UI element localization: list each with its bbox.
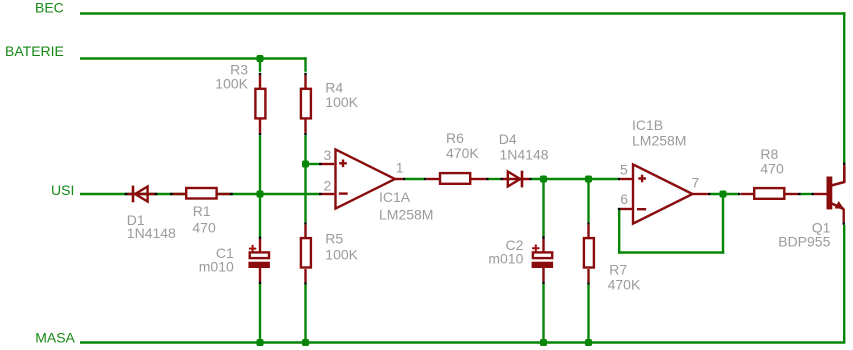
svg-text:MASA: MASA xyxy=(35,329,75,345)
wire col1 USI node to C1 xyxy=(259,194,261,237)
junction MASA/R7 xyxy=(585,339,592,346)
C1 value label xyxy=(199,259,234,275)
wire D4 to pin5 xyxy=(532,178,618,180)
R5 name label xyxy=(325,231,343,247)
svg-text:3: 3 xyxy=(324,147,332,163)
R4 name label xyxy=(325,80,343,96)
R6 name label xyxy=(446,130,464,146)
R1 value label xyxy=(192,220,216,236)
pin tick IC1B pin7 out xyxy=(708,193,711,195)
resistor R5 xyxy=(301,225,311,283)
R3 name label xyxy=(230,61,248,77)
pin tick IC1A pin2 xyxy=(319,193,322,195)
junction D4/R7 xyxy=(585,176,592,183)
junction MASA/R5 xyxy=(302,339,309,346)
pin tick R1 right xyxy=(230,193,233,195)
IC1A pin 3 label xyxy=(324,147,332,163)
svg-text:1N4148: 1N4148 xyxy=(127,225,176,241)
svg-text:IC1A: IC1A xyxy=(379,189,411,205)
capacitor C1 xyxy=(248,239,270,281)
wire col2 pin3 node to R5 xyxy=(304,164,306,222)
diode D4 xyxy=(503,171,529,188)
R4 value label xyxy=(325,94,358,110)
wire col3 C2 to MASA xyxy=(542,284,544,343)
Q1 name label xyxy=(812,220,831,236)
junction MASA/C1 xyxy=(257,339,264,346)
svg-text:BEC: BEC xyxy=(35,0,64,15)
svg-text:R6: R6 xyxy=(446,130,464,146)
svg-text:1N4148: 1N4148 xyxy=(500,147,549,163)
wire Q1 emitter to MASA xyxy=(843,225,845,343)
pin tick IC1B pin5 xyxy=(618,178,621,180)
IC1B pin 6 label xyxy=(620,191,628,207)
svg-text:100K: 100K xyxy=(325,246,358,262)
IC1A pin 1 label xyxy=(396,160,404,176)
IC1B value label xyxy=(632,132,686,148)
pin tick R6 right xyxy=(486,178,489,180)
wire col2 R5 to MASA xyxy=(304,285,306,343)
wire BEC horizontal xyxy=(80,12,845,14)
capacitor C2 xyxy=(532,239,554,281)
pin tick R4 bottom xyxy=(304,133,306,135)
pin tick D4 anode xyxy=(500,178,503,180)
svg-text:R5: R5 xyxy=(325,231,343,247)
diode D1 xyxy=(127,186,154,203)
R1 name label xyxy=(193,203,211,219)
wire col2 R4 to pin3 node xyxy=(304,135,306,164)
junction BATERIE/R3 xyxy=(257,55,264,62)
D1 name label xyxy=(127,212,145,228)
svg-text:6: 6 xyxy=(620,191,628,207)
junction MASA/C2 xyxy=(540,339,547,346)
svg-text:LM258M: LM258M xyxy=(379,207,433,223)
svg-text:470: 470 xyxy=(760,161,784,177)
wire feedback vertical to pin6 xyxy=(618,209,620,254)
svg-text:BATERIE: BATERIE xyxy=(5,43,64,59)
Q1 value label xyxy=(778,234,830,250)
junction IC1B out/feedback xyxy=(720,191,727,198)
IC1B pin 7 label xyxy=(692,175,700,191)
pin tick IC1A pin3 xyxy=(319,163,322,165)
pin tick C2 top xyxy=(542,236,544,239)
pin tick R7 bottom xyxy=(587,282,589,284)
svg-text:D4: D4 xyxy=(499,131,517,147)
wire USI horizontal xyxy=(80,193,319,195)
wire BATERIE horizontal xyxy=(80,57,307,59)
wire MASA horizontal xyxy=(80,341,845,343)
svg-text:100K: 100K xyxy=(215,75,248,91)
R5 value label xyxy=(325,246,358,262)
pin tick R6 left xyxy=(424,178,427,180)
IC1A name label xyxy=(379,189,411,205)
pin tick IC1A pin1 out xyxy=(403,178,406,180)
pin tick R3 bottom xyxy=(259,133,261,135)
svg-text:470K: 470K xyxy=(446,145,479,161)
pin tick R5 bottom xyxy=(304,282,306,284)
pin tick R7 top xyxy=(587,222,589,224)
pin tick IC1B pin6 xyxy=(618,208,621,210)
pin tick C2 bottom xyxy=(542,281,544,284)
svg-text:R1: R1 xyxy=(193,203,211,219)
R3 value label xyxy=(215,75,248,91)
transistor Q1 xyxy=(814,165,844,222)
pin tick D4 cathode xyxy=(529,178,531,180)
pin tick C1 top xyxy=(259,237,261,240)
R6 value label xyxy=(446,145,479,161)
svg-text:2: 2 xyxy=(324,178,332,194)
resistor R4 xyxy=(301,75,311,132)
wire BATERIE corner down to R4 xyxy=(304,57,306,72)
wire R6 to D4 xyxy=(489,178,501,180)
R8 name label xyxy=(760,146,778,162)
wire feedback horizontal xyxy=(618,251,724,253)
pin tick R8 left xyxy=(738,193,741,195)
wire IC1B output to R8 xyxy=(710,193,738,195)
wire R8 to Q1 base xyxy=(801,193,812,195)
wire col3 node to C2 xyxy=(542,179,544,236)
IC1A value label xyxy=(379,207,433,223)
wire col1 C1 to MASA xyxy=(259,284,261,343)
C2 value label xyxy=(488,251,523,267)
R7 name label xyxy=(609,262,627,278)
svg-text:7: 7 xyxy=(692,175,700,191)
svg-text:m010: m010 xyxy=(199,259,234,275)
svg-text:470: 470 xyxy=(192,220,216,236)
D4 name label xyxy=(499,131,517,147)
pin tick R8 right xyxy=(798,193,801,195)
net label USI xyxy=(51,182,74,198)
svg-text:m010: m010 xyxy=(488,251,523,267)
resistor R3 xyxy=(255,75,265,132)
resistor R1 xyxy=(173,188,230,199)
wire col1 R3 to USI node xyxy=(259,135,261,194)
pin tick D1 cathode xyxy=(155,193,158,195)
wire col4 node to R7 xyxy=(587,179,589,222)
wire feedback vertical from output node xyxy=(722,194,724,254)
pin tick Q1 emitter xyxy=(843,222,845,225)
pin tick Q1 base xyxy=(812,193,815,195)
D1 value label xyxy=(127,225,176,241)
svg-text:470K: 470K xyxy=(608,276,641,292)
pin tick C1 bottom xyxy=(259,281,261,284)
net label MASA xyxy=(35,329,75,345)
resistor R6 xyxy=(427,173,486,184)
svg-text:R7: R7 xyxy=(609,262,627,278)
wire col1 BATERIE to R3 xyxy=(259,59,261,72)
op-amp IC1A xyxy=(322,149,403,208)
net label BATERIE xyxy=(5,43,64,59)
svg-text:IC1B: IC1B xyxy=(632,117,663,133)
junction USI/R3/C1 xyxy=(257,191,264,198)
wire IC1A output to R6 xyxy=(405,178,423,180)
wire col4 R7 to MASA xyxy=(587,285,589,343)
wire BEC right vertical (to Q1 collector) xyxy=(843,12,845,162)
C2 name label xyxy=(505,237,523,253)
net label BEC xyxy=(35,0,64,15)
op-amp IC1B xyxy=(620,164,708,223)
resistor R7 xyxy=(584,225,594,283)
C1 name label xyxy=(216,245,234,261)
pin tick R1 left xyxy=(170,193,173,195)
wire pin3 input xyxy=(306,163,319,165)
svg-text:LM258M: LM258M xyxy=(632,132,686,148)
D4 value label xyxy=(500,147,549,163)
svg-text:BDP955: BDP955 xyxy=(778,234,830,250)
R7 value label xyxy=(608,276,641,292)
pin tick Q1 collector xyxy=(843,162,845,165)
svg-text:100K: 100K xyxy=(325,94,358,110)
resistor R8 xyxy=(741,188,798,199)
junction divider/pin3 xyxy=(302,161,309,168)
IC1A pin 2 label xyxy=(324,178,332,194)
pin tick R3 top xyxy=(259,73,261,76)
pin tick R4 top xyxy=(304,73,306,76)
svg-text:5: 5 xyxy=(620,162,628,178)
junction D4/C2 xyxy=(540,176,547,183)
pin tick D1 anode xyxy=(125,193,128,195)
svg-text:USI: USI xyxy=(51,182,74,198)
IC1B name label xyxy=(632,117,663,133)
IC1B pin 5 label xyxy=(620,162,628,178)
R8 value label xyxy=(760,161,784,177)
svg-text:1: 1 xyxy=(396,160,404,176)
svg-text:R4: R4 xyxy=(325,80,343,96)
pin tick R5 top xyxy=(304,222,306,224)
